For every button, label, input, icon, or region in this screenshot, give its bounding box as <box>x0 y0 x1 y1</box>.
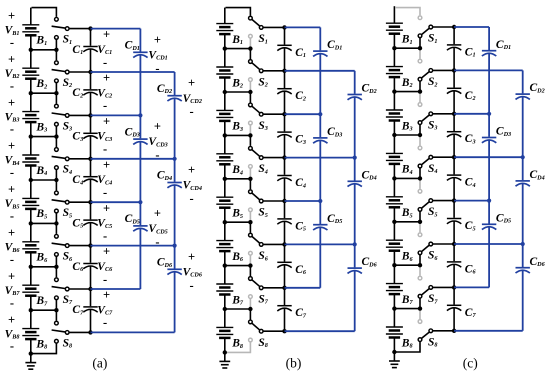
node between B1 and B2 (b) <box>223 46 253 50</box>
node between B3 and B4 (a) <box>29 134 59 138</box>
wire node 7 to tier capacitor column (b) <box>285 287 321 289</box>
junction dots on tier column 2 (c) <box>521 155 525 246</box>
wire switch S3 common to capacitor string (b) <box>263 113 284 115</box>
node between B5 and B6 (a) <box>29 221 59 225</box>
svg-text:+: + <box>103 201 110 215</box>
svg-text:-: - <box>103 272 107 286</box>
capacitor CD3 (b) <box>313 114 342 201</box>
svg-text:+: + <box>154 33 161 47</box>
label VCD6 with polarity (a) <box>183 250 203 293</box>
wire node 5 to tier capacitor column (b) <box>285 200 321 202</box>
node between B7 and B8 (c) <box>392 306 422 310</box>
svg-text:-: - <box>103 229 107 243</box>
capacitor CD1 (a) <box>125 29 148 116</box>
capacitor C2 (b) <box>277 71 306 114</box>
svg-text:-: - <box>103 186 107 200</box>
battery B2 (c) <box>386 48 413 91</box>
svg-text:+: + <box>8 269 15 283</box>
svg-text:+: + <box>154 120 161 134</box>
junction dots on capacitor string (c) <box>452 25 456 333</box>
wire node 7 to tier capacitor column (a) <box>91 288 141 290</box>
capacitor C3 (a) <box>72 115 97 158</box>
wire switch S6 common to capacitor string (b) <box>263 243 284 245</box>
wire switch S4 common to capacitor string (a) <box>69 158 91 160</box>
node between B1 and B2 (c) <box>392 46 422 50</box>
wire switch S7 common to capacitor string (b) <box>263 287 284 289</box>
svg-text:-: - <box>155 235 159 249</box>
battery B4 (c) <box>386 135 413 178</box>
node between B2 and B3 (b) <box>223 90 253 94</box>
svg-text:+: + <box>8 139 15 153</box>
switch S7 (b) <box>249 266 269 309</box>
wire node 1 to tier capacitor column (c) <box>454 26 489 28</box>
svg-text:+: + <box>103 158 110 172</box>
battery B7 (b) <box>216 266 244 309</box>
battery B2 (a) <box>22 50 47 93</box>
wire switch S2 common to capacitor string (c) <box>433 69 455 71</box>
svg-text:-: - <box>155 61 159 75</box>
svg-text:-: - <box>10 209 14 223</box>
switch S4 (c) <box>418 135 437 178</box>
label VC2 with polarity (a) <box>97 71 112 113</box>
switch S8 (a) <box>31 310 72 353</box>
node between B4 and B5 (a) <box>29 178 59 182</box>
capacitor C5 (c) <box>447 201 476 244</box>
capacitor C4 (b) <box>277 158 306 201</box>
switch S4 (b) <box>249 135 268 178</box>
node between B2 and B3 (c) <box>392 89 422 93</box>
battery B7 (c) <box>386 265 414 308</box>
ground (a) <box>25 351 36 369</box>
capacitor C2 (a) <box>72 72 97 115</box>
switch S2 (a) <box>52 50 73 93</box>
capacitor C7 (c) <box>447 287 477 330</box>
svg-text:+: + <box>154 206 161 220</box>
node between B7 and B8 (a) <box>29 308 59 312</box>
capacitor C7 (b) <box>277 288 307 331</box>
svg-text:(a): (a) <box>92 355 107 370</box>
capacitor CD2 (a) <box>157 72 182 159</box>
capacitor C1 (c) <box>447 27 476 70</box>
label VC5 with polarity (a) <box>97 201 112 243</box>
svg-text:-: - <box>103 142 107 156</box>
node between B5 and B6 (c) <box>392 220 422 224</box>
switch S7 (c) <box>418 265 438 308</box>
capacitor CD6 (a) <box>157 246 182 333</box>
label VCD2 with polarity (a) <box>183 76 202 119</box>
switch S3 (c) <box>418 92 437 135</box>
battery B3 (b) <box>216 92 243 135</box>
svg-text:(b): (b) <box>286 355 302 370</box>
junction dots on capacitor string (b) <box>282 25 286 333</box>
label VB7 with polarity (a) <box>5 269 21 309</box>
label VB5 with polarity (a) <box>5 183 20 223</box>
battery B2 (b) <box>216 49 243 92</box>
wire node 1 to tier capacitor column (a) <box>91 28 141 30</box>
capacitor CD1 (b) <box>313 27 342 114</box>
wire node 2 to tier capacitor column (c) <box>454 69 523 71</box>
wire switch S8 common to capacitor string (a) <box>69 331 91 333</box>
capacitor CD3 (a) <box>125 115 148 202</box>
label VB3 with polarity (a) <box>5 96 20 136</box>
switch S5 (a) <box>52 180 73 223</box>
capacitor C1 (b) <box>277 27 306 70</box>
label VC6 with polarity (a) <box>97 245 113 287</box>
node between B3 and B4 (c) <box>392 133 422 137</box>
label VB2 with polarity (a) <box>5 52 20 92</box>
svg-text:+: + <box>103 288 110 302</box>
wire node 3 to tier capacitor column (b) <box>285 113 321 115</box>
battery B5 (c) <box>386 178 413 221</box>
wire node 4 to tier capacitor column (b) <box>285 157 355 159</box>
svg-text:-: - <box>103 316 107 330</box>
svg-text:-: - <box>155 148 159 162</box>
switch S2 (c) <box>418 48 437 91</box>
label VC7 with polarity (a) <box>97 288 113 330</box>
switch S1 (a) <box>32 8 73 50</box>
capacitor C5 (b) <box>277 201 306 244</box>
switch S8 (b) <box>225 309 268 352</box>
junction dots on tier column 1 (c) <box>487 112 491 203</box>
battery B8 (b) <box>216 309 243 352</box>
capacitor C3 (b) <box>277 114 306 157</box>
node between B4 and B5 (c) <box>392 176 422 180</box>
switch S1 (b) <box>226 8 268 49</box>
junction dots on tier column 2 (b) <box>353 156 357 247</box>
ground (c) <box>389 350 400 368</box>
svg-text:+: + <box>8 52 15 66</box>
node between B3 and B4 (b) <box>223 133 253 137</box>
capacitor CD5 (b) <box>313 201 342 288</box>
svg-text:-: - <box>103 99 107 113</box>
label VCD5 with polarity (a) <box>148 206 167 249</box>
switch S2 (b) <box>249 49 268 92</box>
junction dots on tier column 2 (a) <box>173 157 177 248</box>
node between B6 and B7 (a) <box>29 265 59 269</box>
switch S5 (c) <box>418 178 437 221</box>
wire switch S1 common to capacitor string (c) <box>433 26 455 28</box>
label VB4 with polarity (a) <box>5 139 20 179</box>
svg-text:+: + <box>8 226 15 240</box>
battery B3 (a) <box>22 93 47 136</box>
svg-text:-: - <box>103 55 107 69</box>
switch S4 (a) <box>52 137 73 180</box>
capacitor C6 (b) <box>277 244 307 287</box>
switch S6 (b) <box>249 222 269 265</box>
capacitor C7 (a) <box>72 289 97 332</box>
svg-text:+: + <box>103 115 110 129</box>
wire switch S4 common to capacitor string (c) <box>433 156 455 158</box>
svg-text:+: + <box>188 163 195 177</box>
wire node 3 to tier capacitor column (a) <box>91 114 141 116</box>
battery B1 (b) <box>216 8 243 49</box>
node between B1 and B2 (a) <box>29 48 59 52</box>
battery B1 (c) <box>386 6 413 48</box>
wire node 2 to tier capacitor column (a) <box>91 71 175 73</box>
capacitor C4 (a) <box>72 159 97 202</box>
capacitor C1 (a) <box>72 29 97 72</box>
switch S1 (c) <box>395 8 437 49</box>
capacitor CD4 (a) <box>157 159 182 246</box>
battery B1 (a) <box>22 8 47 50</box>
wire node 8 to tier capacitor column (c) <box>454 330 523 332</box>
switch S5 (b) <box>249 179 268 222</box>
node between B4 and B5 (b) <box>223 177 253 181</box>
battery B4 (b) <box>216 135 243 178</box>
label VC1 with polarity (a) <box>97 28 112 70</box>
svg-text:(c): (c) <box>463 355 478 370</box>
switch S7 (a) <box>52 267 73 310</box>
label VB1 with polarity (a) <box>5 9 20 49</box>
svg-text:+: + <box>8 9 15 23</box>
wire switch S1 common to capacitor string (b) <box>263 26 284 28</box>
node between B6 and B7 (b) <box>223 263 253 267</box>
wire node 1 to tier capacitor column (b) <box>285 26 321 28</box>
svg-text:+: + <box>8 313 15 327</box>
capacitor CD6 (c) <box>516 244 546 331</box>
svg-text:-: - <box>10 252 14 266</box>
svg-text:-: - <box>10 166 14 180</box>
junction dots on capacitor string (a) <box>88 26 92 334</box>
svg-text:-: - <box>190 278 194 292</box>
capacitor CD1 (c) <box>482 27 511 114</box>
svg-text:-: - <box>10 296 14 310</box>
label VCD3 with polarity (a) <box>148 120 167 163</box>
capacitor C4 (c) <box>447 157 476 200</box>
wire switch S5 common to capacitor string (b) <box>263 200 284 202</box>
wire node 8 to tier capacitor column (b) <box>285 330 355 332</box>
svg-text:-: - <box>190 192 194 206</box>
wire switch S2 common to capacitor string (b) <box>263 70 284 72</box>
switch S3 (a) <box>52 93 73 136</box>
battery B6 (b) <box>216 222 244 265</box>
svg-text:-: - <box>10 79 14 93</box>
wire node 5 to tier capacitor column (a) <box>91 201 141 203</box>
wire node 3 to tier capacitor column (c) <box>454 113 489 115</box>
label VCD1 with polarity (a) <box>148 33 167 76</box>
wire switch S8 common to capacitor string (b) <box>263 330 284 332</box>
node between B2 and B3 (a) <box>29 91 59 95</box>
battery B8 (a) <box>22 310 47 353</box>
capacitor CD4 (b) <box>348 158 377 245</box>
battery B5 (a) <box>22 180 47 223</box>
battery B6 (a) <box>22 223 48 266</box>
junction dots on tier column 1 (b) <box>318 112 322 203</box>
wire switch S4 common to capacitor string (b) <box>263 157 284 159</box>
junction dots on tier column 1 (a) <box>138 113 142 204</box>
battery B6 (c) <box>386 222 414 265</box>
svg-text:+: + <box>8 96 15 110</box>
svg-text:-: - <box>10 122 14 136</box>
wire node 4 to tier capacitor column (c) <box>454 156 523 158</box>
wire node 2 to tier capacitor column (b) <box>285 70 355 72</box>
capacitor C5 (a) <box>72 202 97 245</box>
battery B7 (a) <box>22 267 48 310</box>
wire node 5 to tier capacitor column (c) <box>454 200 489 202</box>
label VC3 with polarity (a) <box>97 115 112 157</box>
capacitor CD4 (c) <box>516 157 545 244</box>
wire switch S2 common to capacitor string (a) <box>69 71 91 73</box>
wire switch S7 common to capacitor string (a) <box>69 288 91 290</box>
wire switch S7 common to capacitor string (c) <box>433 286 455 288</box>
svg-text:+: + <box>103 71 110 85</box>
node between B7 and B8 (b) <box>223 307 253 311</box>
label VB6 with polarity (a) <box>5 226 21 266</box>
capacitor CD6 (b) <box>348 244 378 331</box>
battery B8 (c) <box>386 309 413 352</box>
wire node 6 to tier capacitor column (b) <box>285 243 355 245</box>
wire switch S8 common to capacitor string (c) <box>433 330 455 332</box>
capacitor CD2 (c) <box>516 70 545 157</box>
wire switch S3 common to capacitor string (c) <box>433 113 455 115</box>
capacitor C6 (a) <box>72 246 97 289</box>
capacitor CD3 (c) <box>482 114 511 201</box>
label VB8 with polarity (a) <box>5 313 20 353</box>
wire node 6 to tier capacitor column (c) <box>454 243 523 245</box>
node between B6 and B7 (c) <box>392 263 422 267</box>
capacitor C2 (c) <box>447 70 476 113</box>
label VCD4 with polarity (a) <box>183 163 202 206</box>
wire node 7 to tier capacitor column (c) <box>454 286 489 288</box>
node between B5 and B6 (b) <box>223 220 253 224</box>
wire switch S6 common to capacitor string (a) <box>69 245 91 247</box>
capacitor C3 (c) <box>447 114 476 157</box>
wire node 8 to tier capacitor column (a) <box>91 331 175 333</box>
switch S6 (a) <box>52 223 73 266</box>
svg-text:+: + <box>188 250 195 264</box>
svg-text:+: + <box>188 76 195 90</box>
wire switch S5 common to capacitor string (c) <box>433 200 455 202</box>
svg-text:+: + <box>103 28 110 42</box>
switch S8 (c) <box>394 309 437 352</box>
ground (b) <box>219 350 230 368</box>
svg-text:-: - <box>10 35 14 49</box>
switch S3 (b) <box>249 92 268 135</box>
capacitor CD5 (c) <box>482 201 511 288</box>
capacitor C6 (c) <box>447 244 477 287</box>
svg-text:+: + <box>103 245 110 259</box>
wire switch S5 common to capacitor string (a) <box>69 201 91 203</box>
wire switch S3 common to capacitor string (a) <box>69 114 91 116</box>
svg-text:-: - <box>10 339 14 353</box>
capacitor CD5 (a) <box>125 202 148 289</box>
battery B3 (c) <box>386 92 413 135</box>
wire switch S1 common to capacitor string (a) <box>69 28 91 30</box>
battery B5 (b) <box>216 179 243 222</box>
capacitor CD2 (b) <box>348 71 377 158</box>
svg-text:+: + <box>8 183 15 197</box>
label VC4 with polarity (a) <box>97 158 112 200</box>
battery B4 (a) <box>22 137 47 180</box>
switch S6 (c) <box>418 222 438 265</box>
svg-text:-: - <box>190 105 194 119</box>
wire node 4 to tier capacitor column (a) <box>91 158 175 160</box>
wire switch S6 common to capacitor string (c) <box>433 243 455 245</box>
wire node 6 to tier capacitor column (a) <box>91 245 175 247</box>
